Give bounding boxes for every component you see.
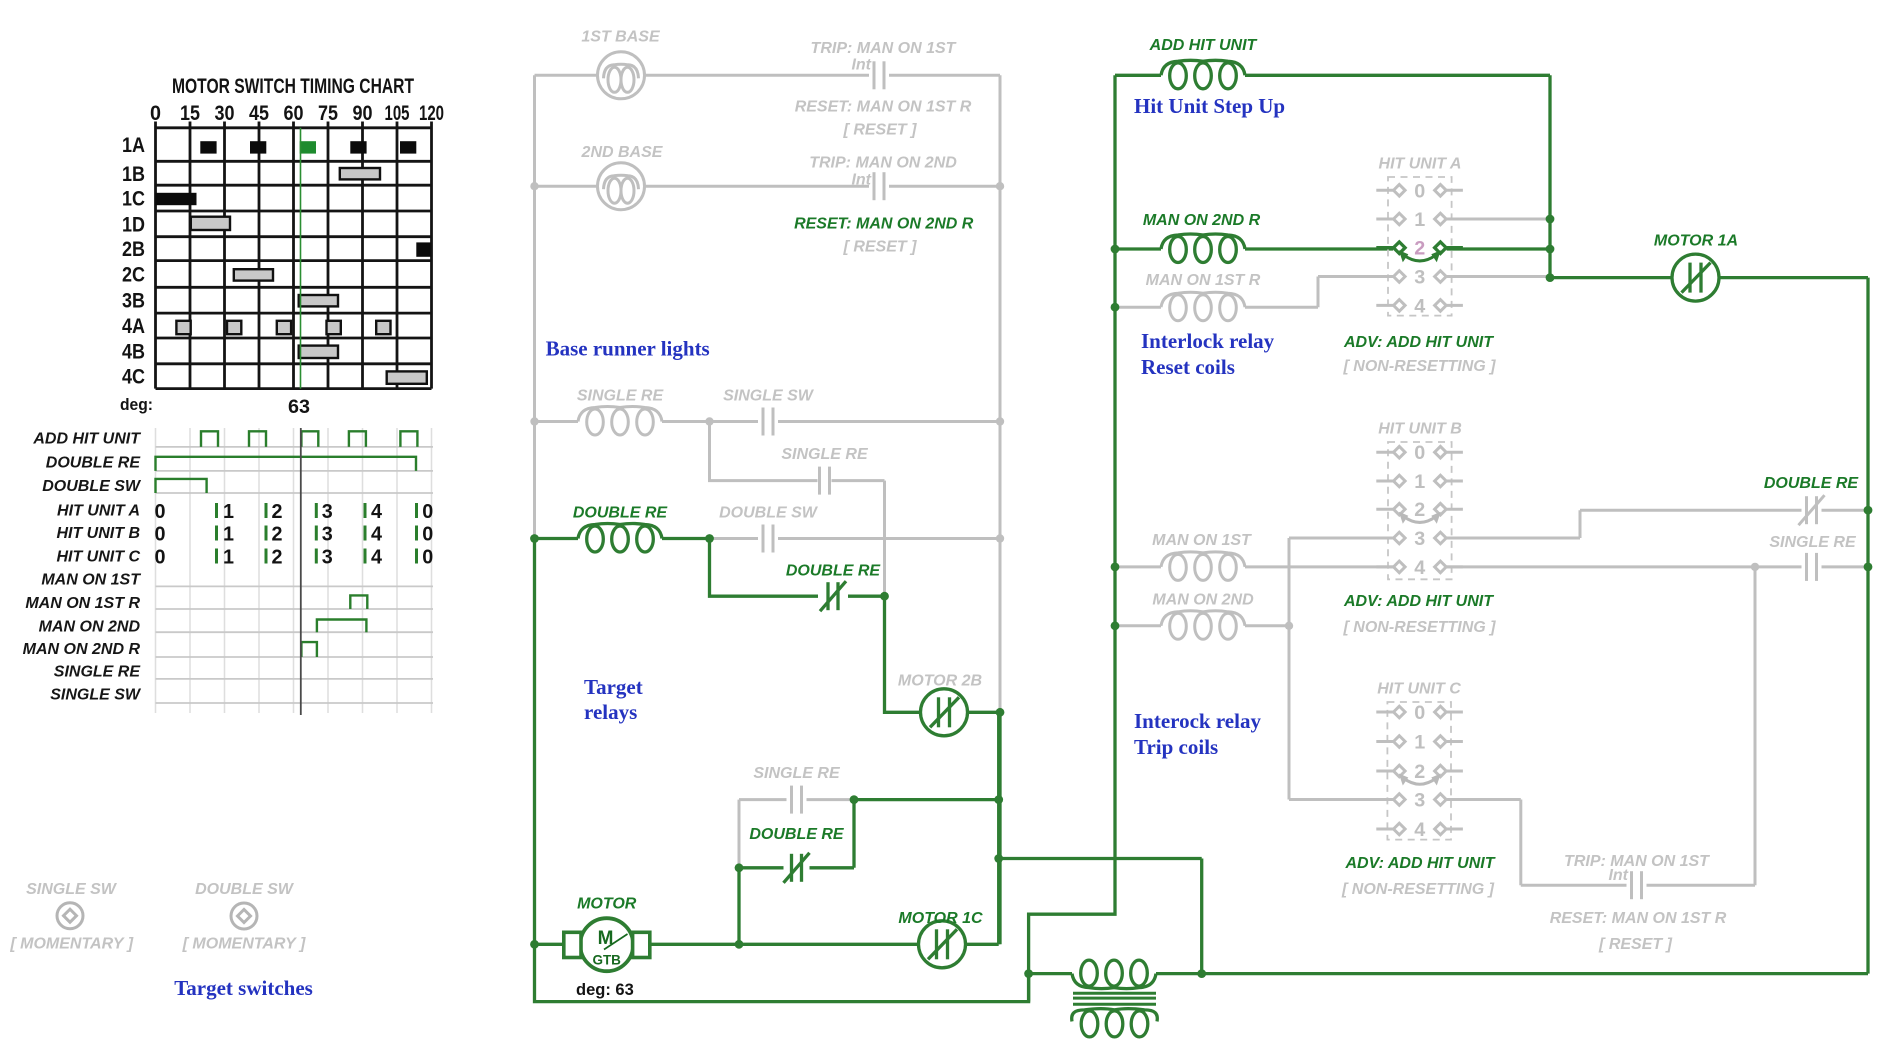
stepper HIT UNIT B position 3 contacts (1376, 532, 1463, 544)
svg-text:ADD HIT UNIT: ADD HIT UNIT (32, 431, 141, 448)
wire MAN ON 1ST R rung (gray) (1115, 277, 1393, 308)
contact TRIP: MAN ON 1ST (interlock) (874, 61, 884, 89)
svg-text:TRIP: MAN ON 1ST: TRIP: MAN ON 1ST (1564, 853, 1710, 870)
waveform signal labels (23, 431, 142, 704)
svg-text:0: 0 (155, 524, 166, 546)
svg-text:ADV: ADD HIT UNIT: ADV: ADD HIT UNIT (1343, 334, 1494, 351)
1B closure bar (340, 168, 380, 179)
svg-text:ADD HIT UNIT: ADD HIT UNIT (1149, 37, 1258, 54)
contact DOUBLE RE lower (normally closed) (784, 853, 810, 883)
svg-text:DOUBLE SW: DOUBLE SW (42, 478, 142, 495)
svg-text:1B: 1B (122, 163, 145, 186)
svg-text:1D: 1D (122, 213, 145, 236)
svg-text:1ST BASE: 1ST BASE (581, 29, 661, 46)
1A active closure (green) at 63 deg (300, 141, 316, 153)
wire right rail far (green) (1866, 278, 1869, 974)
junction single re left (530, 417, 538, 425)
wire MOTOR 1A rung (1550, 276, 1868, 279)
junction man on 2nd left (1111, 621, 1120, 630)
junction double sw right rail (996, 534, 1004, 542)
DOUBLE SW waveform (156, 479, 207, 493)
svg-text:GTB: GTB (592, 953, 621, 968)
svg-text:SINGLE RE: SINGLE RE (54, 664, 142, 681)
transformer primary coil (1072, 960, 1156, 989)
contact SINGLE RE (motor hold) (792, 786, 802, 814)
junction hit A row1 rail (1546, 215, 1555, 224)
wire 1st base rung (535, 74, 1001, 77)
svg-text:4: 4 (371, 547, 383, 569)
junction single sw tee (705, 417, 713, 425)
4A closure marks (176, 321, 190, 334)
svg-text:3: 3 (1414, 791, 1425, 812)
svg-text:Base runner lights: Base runner lights (546, 337, 710, 361)
svg-text:2: 2 (272, 524, 283, 546)
svg-text:1A: 1A (122, 134, 145, 157)
wire DOUBLE SW branch (710, 537, 1001, 540)
junction man on 1st r left (1111, 303, 1120, 312)
svg-text:4B: 4B (122, 340, 145, 363)
svg-text:SINGLE SW: SINGLE SW (50, 686, 142, 703)
wire right rail upper (gray) (999, 75, 1002, 712)
wire left rail upper (gray) (533, 75, 536, 538)
wire SINGLE RE rung (535, 420, 1001, 423)
svg-text:ADV: ADD HIT UNIT: ADV: ADD HIT UNIT (1343, 593, 1494, 610)
stepper HIT UNIT C position 3 contacts (1376, 794, 1463, 806)
junction double re left rail (530, 534, 539, 543)
svg-text:Int: Int (1608, 867, 1628, 884)
contact SINGLE RE (hold path) (820, 467, 830, 495)
svg-text:[ NON-RESETTING ]: [ NON-RESETTING ] (1343, 358, 1497, 375)
waveform 63-degree cursor line (300, 428, 302, 715)
wire 2nd base rung (535, 185, 1001, 188)
svg-text:3: 3 (322, 524, 333, 546)
svg-text:0: 0 (1414, 443, 1425, 464)
wire DOUBLE RE contact branch (710, 539, 1001, 713)
svg-text:HIT UNIT B: HIT UNIT B (56, 525, 140, 542)
svg-text:2: 2 (272, 547, 283, 569)
svg-text:2C: 2C (122, 264, 145, 287)
svg-text:1: 1 (223, 501, 234, 523)
wire hit-unit rail (green) (1029, 75, 1115, 1001)
stepper HIT UNIT B position 2 contacts (1376, 503, 1463, 515)
svg-text:Target switches: Target switches (174, 976, 313, 1000)
MAN ON 2ND waveform (317, 620, 367, 633)
svg-text:MOTOR 2B: MOTOR 2B (898, 673, 982, 690)
coil MAN ON 1ST R (1161, 292, 1245, 321)
svg-text:MOTOR 1A: MOTOR 1A (1654, 233, 1738, 250)
svg-text:MAN ON 1ST R: MAN ON 1ST R (25, 595, 140, 612)
svg-text:1: 1 (223, 524, 234, 546)
svg-text:TRIP: MAN ON 1ST: TRIP: MAN ON 1ST (811, 40, 957, 57)
svg-text:Int: Int (851, 57, 871, 74)
svg-text:DOUBLE SW: DOUBLE SW (195, 881, 295, 898)
contact SINGLE SW (763, 408, 773, 436)
stepper HIT UNIT A position 1 contacts (1376, 213, 1463, 225)
svg-text:RESET: MAN ON 1ST R: RESET: MAN ON 1ST R (795, 99, 972, 116)
svg-text:[ NON-RESETTING ]: [ NON-RESETTING ] (1341, 881, 1495, 898)
junction double re contact out (880, 592, 889, 601)
svg-text:MOTOR SWITCH TIMING CHART: MOTOR SWITCH TIMING CHART (172, 75, 414, 98)
contact SINGLE RE right (1807, 553, 1817, 581)
wire jog to SINGLE RE contact (710, 422, 885, 597)
svg-text:Trip coils: Trip coils (1134, 735, 1218, 759)
svg-text:TRIP: MAN ON 2ND: TRIP: MAN ON 2ND (809, 155, 957, 172)
stepper HIT UNIT C position 4 contacts (1376, 823, 1463, 835)
HIT UNIT B position counter (155, 524, 434, 546)
wire transformer primary feed (1029, 972, 1868, 975)
svg-text:MAN ON 2ND: MAN ON 2ND (1152, 592, 1254, 609)
svg-text:Interock relay: Interock relay (1134, 709, 1261, 733)
svg-text:HIT UNIT C: HIT UNIT C (1377, 681, 1461, 698)
motor coil MOTOR 2B (921, 689, 968, 736)
stepper HIT UNIT A wiper arrow (1399, 250, 1441, 262)
contact DOUBLE RE (normally closed) (820, 581, 846, 611)
junction man on 2nd interlock tee (1285, 622, 1293, 630)
svg-text:3: 3 (322, 547, 333, 569)
svg-text:SINGLE RE: SINGLE RE (753, 765, 841, 782)
junction transformer feed left (1024, 969, 1033, 978)
svg-text:2: 2 (1414, 239, 1425, 260)
4B closure bar (299, 346, 338, 358)
wire ADD HIT UNIT rung (1115, 75, 1550, 277)
waveform baselines (156, 447, 434, 703)
wire hit unit A row1 to rail (1447, 218, 1550, 221)
stepper HIT UNIT B position 4 contacts (1376, 561, 1463, 573)
svg-text:4C: 4C (122, 366, 145, 389)
transformer core (1073, 993, 1156, 1004)
svg-text:4: 4 (1414, 558, 1425, 579)
svg-text:HIT UNIT B: HIT UNIT B (1378, 421, 1462, 438)
svg-text:3: 3 (322, 501, 333, 523)
wire DOUBLE RE rung (green) (535, 537, 710, 540)
4C closure bar (387, 371, 427, 383)
1C closure bar (155, 193, 196, 205)
svg-text:Hit Unit Step Up: Hit Unit Step Up (1134, 94, 1285, 118)
svg-text:RESET: MAN ON 1ST R: RESET: MAN ON 1ST R (1550, 910, 1727, 927)
svg-text:Target: Target (584, 675, 643, 699)
coil DOUBLE RE (578, 524, 662, 553)
svg-text:Reset coils: Reset coils (1141, 355, 1235, 379)
lamp 1ST BASE (598, 52, 645, 99)
stepper HIT UNIT C position 0 contacts (1376, 706, 1463, 718)
junction single sw right rail (996, 417, 1004, 425)
svg-text:3: 3 (1414, 529, 1425, 550)
stepper unit HIT UNIT C dashed frame (1387, 702, 1451, 840)
svg-text:0: 0 (1414, 703, 1425, 724)
junction trip chain tee (1751, 563, 1759, 571)
junction man on 1st left (1111, 563, 1120, 572)
junction double re right rail (1864, 506, 1873, 515)
wire lower SINGLE RE branch (gray part) (739, 800, 854, 868)
wire hit unit B row3 left stub link (1289, 537, 1393, 540)
svg-text:DOUBLE RE: DOUBLE RE (573, 505, 669, 522)
svg-text:HIT UNIT C: HIT UNIT C (56, 548, 140, 565)
stepper HIT UNIT B wiper arrow (1399, 512, 1441, 524)
svg-text:0: 0 (422, 501, 433, 523)
wire hit unit C row3 to TRIP contact (1447, 800, 1755, 886)
MAN ON 1ST R pulse (350, 595, 367, 609)
stepper HIT UNIT A position 0 contacts (1376, 185, 1463, 197)
stepper HIT UNIT B position 1 contacts (1376, 475, 1463, 487)
svg-text:SINGLE RE: SINGLE RE (1769, 534, 1857, 551)
junction motor 2b right rail (996, 708, 1005, 717)
svg-text:1: 1 (223, 547, 234, 569)
junction motor 1a rail (1546, 273, 1555, 282)
junction single re right rail (1864, 563, 1873, 572)
svg-text:HIT UNIT A: HIT UNIT A (1379, 156, 1462, 173)
coil SINGLE RE (578, 407, 662, 436)
svg-text:MAN ON 2ND R: MAN ON 2ND R (1143, 212, 1261, 229)
svg-text:Int: Int (851, 172, 871, 189)
svg-text:63: 63 (288, 397, 310, 418)
svg-text:DOUBLE SW: DOUBLE SW (719, 505, 819, 522)
svg-text:1: 1 (1414, 210, 1425, 231)
svg-text:4: 4 (371, 501, 383, 523)
svg-text:MAN ON 2ND R: MAN ON 2ND R (23, 641, 141, 658)
junction man on 2nd r left (1111, 245, 1120, 254)
wire hit unit A row3 to rail (1447, 275, 1550, 278)
junction transformer feed right (1197, 969, 1206, 978)
svg-text:3B: 3B (122, 290, 145, 313)
svg-text:2B: 2B (122, 238, 145, 261)
junction parallel branch upper (994, 795, 1003, 804)
svg-text:[ MOMENTARY ]: [ MOMENTARY ] (182, 936, 306, 953)
contact DOUBLE SW (763, 525, 773, 553)
svg-text:2ND BASE: 2ND BASE (581, 144, 664, 161)
chart degree axis labels (150, 102, 444, 125)
motor M GTB (score motor) (564, 918, 650, 971)
coil MAN ON 2ND R (1161, 234, 1245, 263)
svg-text:SINGLE RE: SINGLE RE (781, 446, 869, 463)
svg-text:[ RESET ]: [ RESET ] (843, 122, 918, 139)
coil MAN ON 2ND (1161, 611, 1245, 640)
chart grid (156, 122, 432, 389)
wire hit unit C row3 left link (1289, 798, 1393, 801)
2B closure mark (416, 242, 430, 256)
svg-text:0: 0 (155, 501, 166, 523)
HIT UNIT A position counter (155, 501, 434, 523)
junction motor-hold branch top (850, 795, 859, 804)
svg-text:2: 2 (1414, 500, 1425, 521)
svg-text:3: 3 (1414, 268, 1425, 289)
svg-text:RESET: MAN ON 2ND R: RESET: MAN ON 2ND R (794, 216, 974, 233)
junction parallel branch lower (994, 854, 1003, 863)
junction 2nd base left (530, 182, 538, 190)
svg-text:SINGLE RE: SINGLE RE (577, 388, 665, 405)
svg-text:deg: 63: deg: 63 (576, 981, 634, 999)
contact TRIP: MAN ON 2ND (interlock) (874, 172, 884, 200)
wire trip chain vertical (1754, 567, 1757, 885)
svg-text:ADV: ADD HIT UNIT: ADV: ADD HIT UNIT (1344, 855, 1495, 872)
junction hit A row2 rail (1546, 245, 1555, 254)
svg-text:1C: 1C (122, 188, 145, 211)
svg-text:4A: 4A (122, 315, 145, 338)
transformer secondary coil (1072, 1009, 1158, 1037)
lamp 2ND BASE (598, 163, 645, 210)
svg-text:[ RESET ]: [ RESET ] (1598, 936, 1673, 953)
wire interlock chain vertical (1288, 538, 1291, 800)
stepper HIT UNIT A position 3 contacts (1376, 271, 1463, 283)
wire left rail lower (green) (535, 539, 1029, 1002)
svg-text:relays: relays (584, 700, 637, 724)
svg-text:4: 4 (1414, 820, 1425, 841)
svg-text:MAN ON 1ST R: MAN ON 1ST R (1146, 272, 1261, 289)
stepper HIT UNIT C position 1 contacts (1376, 736, 1463, 748)
single switch symbol (57, 903, 83, 929)
svg-text:MAN ON 2ND: MAN ON 2ND (39, 619, 141, 636)
wire MAN ON 1ST rung (gray) (1115, 565, 1393, 568)
wire hit unit B row3 to DOUBLE RE contact (1447, 510, 1868, 538)
junction motor-hold branch left (735, 863, 744, 872)
svg-text:DOUBLE RE: DOUBLE RE (786, 563, 882, 580)
svg-text:[ NON-RESETTING ]: [ NON-RESETTING ] (1343, 619, 1497, 636)
1A cam closure marks (200, 141, 216, 153)
junction double re tee (705, 534, 714, 543)
HIT UNIT C position counter (155, 547, 434, 569)
wire MAN ON 2ND rung (gray) (1115, 624, 1289, 627)
motor coil MOTOR 1A (1672, 254, 1719, 301)
svg-text:[ RESET ]: [ RESET ] (843, 239, 918, 256)
double switch symbol (231, 903, 257, 929)
junction motor rung left rail (530, 940, 539, 949)
MAN ON 2ND R pulse (301, 642, 317, 657)
DOUBLE RE waveform (156, 457, 417, 471)
stepper HIT UNIT B position 0 contacts (1376, 446, 1463, 458)
stepper unit HIT UNIT A dashed frame (1388, 177, 1452, 316)
2C closure bar (234, 269, 273, 280)
junction motor branch tee (735, 940, 744, 949)
ADD HIT UNIT pulse train (201, 431, 218, 447)
svg-text:SINGLE SW: SINGLE SW (26, 881, 118, 898)
svg-text:0: 0 (422, 524, 433, 546)
wire motor rung (535, 712, 999, 944)
contact TRIP: MAN ON 1ST (interlock lower) (1632, 871, 1642, 899)
svg-text:4: 4 (371, 524, 383, 546)
junction 2nd base right (996, 182, 1004, 190)
stepper HIT UNIT A position 4 contacts (1376, 300, 1463, 312)
coil MAN ON 1ST (1161, 552, 1245, 581)
svg-text:DOUBLE RE: DOUBLE RE (46, 455, 142, 472)
stepper unit HIT UNIT B dashed frame (1388, 442, 1452, 579)
wire parallel branch to transformer (999, 859, 1202, 974)
svg-text:[ MOMENTARY ]: [ MOMENTARY ] (9, 936, 133, 953)
coil ADD HIT UNIT (1161, 60, 1245, 89)
svg-text:SINGLE SW: SINGLE SW (723, 388, 815, 405)
svg-text:0: 0 (422, 547, 433, 569)
wire motor feed branch vertical (737, 868, 740, 945)
svg-text:2: 2 (1414, 762, 1425, 783)
svg-text:MAN ON 1ST: MAN ON 1ST (41, 572, 141, 589)
chart row labels (122, 134, 145, 389)
stepper HIT UNIT A position 2 contacts (1376, 242, 1463, 254)
svg-text:MOTOR 1C: MOTOR 1C (898, 910, 983, 927)
wire DOUBLE RE motor-hold branch (green) (739, 800, 999, 868)
wire hit unit B row4 to SINGLE RE contact (1447, 565, 1868, 568)
svg-text:deg:: deg: (120, 395, 153, 414)
wire MAN ON 2ND R rung (green) (1115, 247, 1550, 250)
svg-text:MAN ON 1ST: MAN ON 1ST (1152, 532, 1252, 549)
chart 63-degree cursor line (300, 128, 302, 389)
svg-text:DOUBLE RE: DOUBLE RE (749, 826, 845, 843)
svg-text:1: 1 (1414, 733, 1425, 754)
svg-text:0: 0 (1414, 181, 1425, 202)
wire right rail lower (green) (998, 712, 1001, 944)
svg-text:DOUBLE RE: DOUBLE RE (1764, 475, 1860, 492)
svg-text:4: 4 (1414, 296, 1425, 317)
1D closure bar (191, 217, 230, 230)
stepper HIT UNIT C position 2 contacts (1376, 765, 1463, 777)
contact DOUBLE RE right (normally closed) (1799, 495, 1825, 525)
svg-text:0: 0 (155, 547, 166, 569)
3B closure bar (299, 295, 338, 306)
svg-text:2: 2 (272, 501, 283, 523)
svg-text:1: 1 (1414, 472, 1425, 493)
timing waveform column grid (156, 428, 432, 713)
stepper HIT UNIT C wiper arrow (1399, 774, 1441, 786)
svg-text:HIT UNIT A: HIT UNIT A (57, 503, 140, 520)
svg-text:Interlock relay: Interlock relay (1141, 329, 1275, 353)
svg-text:MOTOR: MOTOR (577, 896, 637, 913)
motor coil MOTOR 1C (919, 921, 966, 968)
